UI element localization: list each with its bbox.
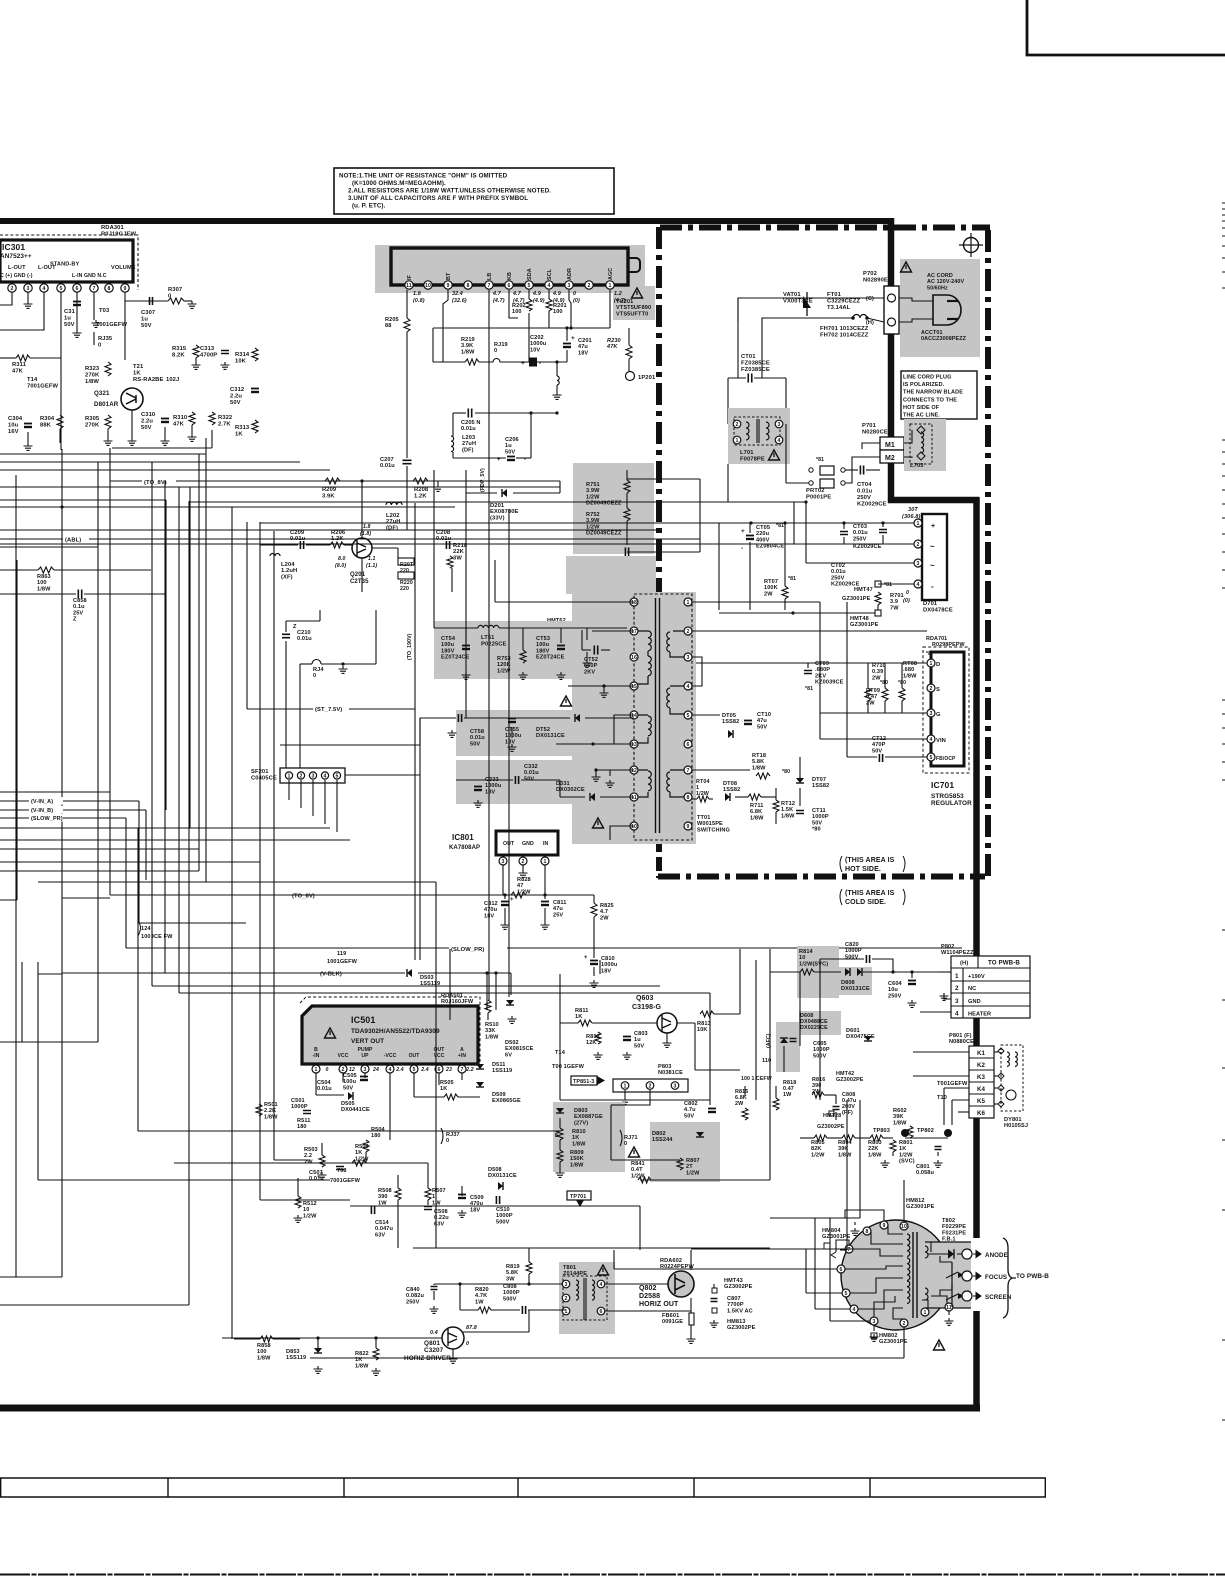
extra left verticals: [21, 962, 23, 1042]
svg-text:9: 9: [124, 286, 127, 292]
svg-text:P0001PE: P0001PE: [806, 495, 831, 501]
svg-text:S: S: [936, 687, 940, 693]
svg-text:C514: C514: [375, 1220, 390, 1226]
svg-text:R307: R307: [168, 287, 182, 293]
svg-text:EZ0T24CE: EZ0T24CE: [441, 655, 470, 661]
svg-text:-VCC: -VCC: [384, 1053, 397, 1059]
svg-text:8: 8: [687, 795, 690, 801]
svg-text:F0078PE: F0078PE: [740, 457, 765, 463]
svg-text:Z0144PE: Z0144PE: [563, 1271, 587, 1277]
svg-text:3.9K: 3.9K: [461, 343, 473, 349]
wires K connector: [913, 1051, 969, 1053]
wire pin5 down: [60, 292, 62, 450]
svg-text:50V: 50V: [141, 425, 152, 431]
svg-text:0.01u: 0.01u: [853, 530, 868, 536]
svg-text:0: 0: [446, 1138, 449, 1144]
flyback pins: [880, 1221, 888, 1229]
svg-text:(0.8): (0.8): [413, 298, 425, 304]
svg-text:SCL: SCL: [547, 268, 553, 280]
resistor R752 sym: [624, 508, 630, 521]
svg-text:50V: 50V: [64, 322, 75, 328]
svg-text:12: 12: [631, 768, 637, 774]
diode D808: [845, 968, 850, 976]
flyback focus pot: [946, 1262, 958, 1290]
svg-text:R230: R230: [607, 338, 622, 344]
gray patch AFC diodes: [776, 1022, 800, 1072]
svg-text:1/2W: 1/2W: [631, 1173, 645, 1179]
svg-text:(V-IN_A): (V-IN_A): [31, 799, 53, 805]
svg-text:P0225CE: P0225CE: [481, 642, 507, 648]
svg-text:C858: C858: [73, 598, 87, 604]
svg-text:C31: C31: [64, 309, 76, 315]
svg-text:1/8W: 1/8W: [85, 379, 99, 385]
svg-text:RDA602: RDA602: [660, 1258, 682, 1264]
svg-text:3: 3: [27, 286, 30, 292]
svg-text:50V: 50V: [141, 323, 152, 329]
svg-text:2: 2: [300, 773, 303, 779]
svg-text:1u: 1u: [634, 1037, 641, 1043]
hot-side chain border left lower: [656, 838, 662, 878]
svg-text:C201: C201: [578, 338, 592, 344]
svg-text:+IN: +IN: [458, 1053, 467, 1059]
svg-text:0.01u: 0.01u: [524, 770, 539, 776]
svg-text:16: 16: [631, 655, 637, 661]
svg-text:R841: R841: [631, 1161, 645, 1167]
svg-text:~: ~: [930, 542, 935, 551]
svg-text:4: 4: [917, 582, 920, 588]
center verticals: [419, 718, 421, 960]
svg-text:R511: R511: [297, 1118, 310, 1124]
svg-text:.680: .680: [903, 667, 914, 673]
svg-text:THE NARROW BLADE: THE NARROW BLADE: [903, 390, 963, 396]
svg-text:C209: C209: [290, 530, 305, 536]
gray patch D808: [830, 967, 872, 995]
svg-text:9: 9: [687, 824, 690, 830]
svg-text:8.0: 8.0: [338, 556, 346, 562]
svg-text:0.4T: 0.4T: [631, 1167, 643, 1173]
thick bottom boundary line: [0, 1405, 980, 1412]
svg-text:0: 0: [624, 1141, 627, 1147]
svg-text:9: 9: [447, 283, 450, 289]
svg-text:R863: R863: [37, 574, 51, 580]
svg-text:C206: C206: [505, 437, 519, 443]
svg-text:M2: M2: [885, 455, 895, 462]
svg-text:TDA9302H/AN5522/TDA9309: TDA9302H/AN5522/TDA9309: [351, 1028, 440, 1035]
svg-text:10: 10: [425, 283, 431, 289]
svg-text:88K: 88K: [40, 423, 52, 429]
svg-text:11: 11: [406, 283, 412, 289]
flyback core: [912, 1232, 914, 1318]
svg-text:3: 3: [930, 711, 933, 717]
svg-text:1: 1: [917, 521, 920, 527]
T701 pin14-13 left loop: [614, 715, 634, 744]
svg-text:4.7: 4.7: [512, 291, 522, 297]
svg-text:FH701 1013CEZZ: FH701 1013CEZZ: [820, 326, 869, 332]
svg-text:1: 1: [288, 773, 291, 779]
svg-text:R504: R504: [371, 1127, 386, 1133]
svg-text:C807: C807: [727, 1296, 741, 1302]
svg-text:RT07: RT07: [764, 579, 778, 585]
svg-text:C802: C802: [684, 1101, 698, 1107]
svg-text:4: 4: [43, 286, 46, 292]
svg-text:D511: D511: [492, 1062, 505, 1068]
svg-text:5.8K: 5.8K: [752, 759, 764, 765]
svg-text:FZ0385CE: FZ0385CE: [741, 367, 770, 373]
svg-text:7001GEFW: 7001GEFW: [27, 384, 59, 390]
svg-text:47K: 47K: [173, 422, 185, 428]
svg-text:NC: NC: [968, 986, 976, 992]
svg-text:470u: 470u: [484, 907, 498, 913]
svg-text:C3198-G: C3198-G: [632, 1004, 662, 1011]
svg-text:HEATER: HEATER: [968, 1012, 991, 1018]
svg-text:2: 2: [903, 1321, 906, 1327]
svg-text:87.8: 87.8: [466, 1325, 477, 1331]
svg-text:RDA501: RDA501: [441, 993, 463, 999]
svg-text:D803: D803: [574, 1108, 588, 1114]
svg-text:(u. P. ETC).: (u. P. ETC).: [352, 203, 386, 210]
transistor Q802: [668, 1271, 694, 1297]
svg-text:1: 1: [687, 600, 690, 606]
diode DT51 sym: [583, 624, 588, 632]
wires T801: [434, 1283, 563, 1285]
svg-text:(32.6): (32.6): [452, 298, 467, 304]
hot-side chain border top: [660, 225, 990, 231]
svg-text:1/8W: 1/8W: [461, 349, 475, 355]
IC701 dashed outline: [923, 647, 969, 773]
svg-text:47u: 47u: [578, 344, 588, 350]
warning triangle under LT51: [561, 696, 572, 706]
ground CT52: [583, 660, 592, 667]
svg-text:CT11: CT11: [812, 808, 826, 814]
svg-text:HM802: HM802: [879, 1333, 898, 1339]
tuner pins: [405, 281, 413, 289]
L703 coil: [921, 432, 924, 453]
svg-text:4.7K: 4.7K: [475, 1293, 487, 1299]
svg-text:1.2uH: 1.2uH: [281, 568, 297, 574]
svg-text:4: 4: [389, 1067, 392, 1073]
svg-text:18: 18: [631, 600, 637, 606]
left bundle horizontals upper: [112, 447, 212, 449]
line cord plug note box: [901, 371, 977, 419]
svg-text:*81: *81: [805, 686, 813, 692]
wire tuner pin7: [488, 290, 490, 560]
svg-text:6: 6: [840, 1267, 843, 1273]
connector P702: [884, 286, 899, 334]
wires R805 row: [800, 1137, 814, 1139]
svg-text:(ABL): (ABL): [65, 538, 81, 544]
svg-text:HOT SIDE OF: HOT SIDE OF: [903, 405, 940, 411]
svg-text:10: 10: [303, 1207, 309, 1213]
svg-text:CT09: CT09: [815, 661, 829, 667]
svg-text:TO PWB-B: TO PWB-B: [1016, 1273, 1049, 1280]
svg-text:TP851-3: TP851-3: [573, 1079, 594, 1085]
svg-text:50V: 50V: [872, 748, 882, 754]
svg-text:(8.0): (8.0): [335, 563, 346, 569]
gray patch D803: [553, 1102, 625, 1172]
flyback right coils: [925, 1246, 928, 1258]
svg-text:HMT47: HMT47: [854, 587, 873, 593]
svg-text:0.01u: 0.01u: [309, 1176, 324, 1182]
svg-text:4.7: 4.7: [492, 291, 502, 297]
transistor Q603: [657, 1013, 677, 1033]
svg-text:4.7u: 4.7u: [684, 1107, 696, 1113]
capacitor C205: [468, 409, 471, 418]
svg-text:50V: 50V: [230, 400, 241, 406]
svg-text:Q321: Q321: [94, 390, 110, 397]
svg-text:10u: 10u: [8, 423, 19, 429]
svg-text:C312: C312: [230, 387, 244, 393]
svg-text:1.2K: 1.2K: [414, 494, 427, 500]
svg-text:R602: R602: [893, 1108, 907, 1114]
terminal 1P201: [626, 372, 635, 381]
svg-text:R209: R209: [322, 487, 337, 493]
wire bridge pin2: [794, 543, 914, 545]
inductor L203: [451, 436, 454, 452]
hot-side chain border bottom: [658, 874, 985, 880]
svg-text:2T: 2T: [686, 1164, 693, 1170]
svg-text:~: ~: [930, 561, 935, 570]
svg-text:CT02: CT02: [831, 563, 845, 569]
wire pin2 down: [0, 292, 12, 305]
resistor R208 on TO_8V line: [413, 478, 428, 484]
svg-text:1SS119: 1SS119: [286, 1355, 306, 1361]
svg-text:D808: D808: [841, 980, 855, 986]
svg-text:P702: P702: [863, 271, 877, 277]
svg-text:+: +: [584, 955, 588, 961]
svg-text:(THIS AREA IS: (THIS AREA IS: [845, 857, 895, 864]
svg-text:DT07: DT07: [812, 777, 826, 783]
svg-text:5: 5: [413, 1067, 416, 1073]
wires Q603: [592, 1022, 657, 1024]
svg-text:5: 5: [930, 755, 933, 761]
svg-text:T10: T10: [937, 1095, 947, 1101]
svg-text:R825: R825: [600, 903, 614, 909]
wires R858: [234, 1338, 260, 1340]
wire bridge pin4 HMT47: [878, 583, 914, 585]
grounds R315 C313: [192, 362, 201, 369]
svg-text:0.01u: 0.01u: [317, 1086, 332, 1092]
svg-text:7W: 7W: [890, 605, 899, 611]
svg-text:+: +: [571, 335, 575, 342]
svg-text:0.1u: 0.1u: [73, 604, 85, 610]
svg-text:-: -: [741, 545, 743, 552]
svg-text:2: 2: [687, 629, 690, 635]
svg-text:180: 180: [371, 1133, 381, 1139]
IC701 pins: [927, 659, 935, 667]
svg-text:1/8W: 1/8W: [264, 1114, 278, 1120]
transistor Q321: [121, 388, 143, 410]
svg-text:180V: 180V: [441, 648, 455, 654]
svg-text:390: 390: [378, 1194, 388, 1200]
thick boundary right vertical of AC inlet area: [888, 218, 895, 503]
svg-text:L203: L203: [462, 435, 475, 441]
wire TO_190V vertical: [414, 628, 416, 960]
svg-text:TT01: TT01: [697, 815, 710, 821]
gray patch D802: [650, 1122, 720, 1182]
svg-text:12K: 12K: [586, 1040, 597, 1046]
svg-text:6.8K: 6.8K: [750, 809, 762, 815]
svg-text:IF: IF: [407, 274, 413, 280]
svg-text:(DF): (DF): [462, 447, 474, 453]
svg-text:1K: 1K: [572, 1135, 579, 1141]
flyback right side wires: [928, 1253, 948, 1255]
svg-text:50V: 50V: [524, 776, 534, 782]
svg-text:LB: LB: [487, 273, 493, 280]
svg-text:4: 4: [778, 438, 781, 444]
svg-text:GZ3001PE: GZ3001PE: [906, 1204, 935, 1210]
svg-text:7: 7: [488, 283, 491, 289]
svg-text:47: 47: [517, 883, 523, 889]
svg-text:DT52: DT52: [536, 727, 550, 733]
wire tuner pin6: [509, 290, 518, 318]
svg-text:2W: 2W: [866, 700, 875, 706]
svg-text:1/8W: 1/8W: [752, 765, 766, 771]
wire tuner pin9 BT: [443, 290, 448, 362]
svg-text:R810: R810: [572, 1129, 586, 1135]
transistor Q801: [442, 1327, 464, 1349]
svg-text:0: 0: [326, 1067, 329, 1073]
svg-text:T03: T03: [99, 308, 110, 314]
wires M1 M2: [904, 430, 912, 443]
svg-text:0091GE: 0091GE: [662, 1319, 683, 1325]
wire Q321 emitter: [131, 410, 133, 438]
svg-text:N0880CE: N0880CE: [949, 1039, 974, 1045]
svg-text:R304: R304: [40, 416, 55, 422]
svg-text:2.ALL RESISTORS ARE 1/18W WATT: 2.ALL RESISTORS ARE 1/18W WATT.UNLESS OT…: [348, 188, 551, 195]
T701 dashed outline: [634, 594, 692, 840]
svg-text:P802: P802: [941, 944, 954, 950]
T701 pin7 wire right: [692, 769, 750, 771]
svg-text:1: 1: [624, 1083, 627, 1089]
svg-text:C820: C820: [845, 942, 859, 948]
svg-text:18V: 18V: [485, 789, 495, 795]
svg-text:DY801: DY801: [1004, 1117, 1022, 1123]
T801 pins: [562, 1280, 570, 1288]
svg-text:1/8W: 1/8W: [868, 1152, 882, 1158]
svg-text:0.082u: 0.082u: [406, 1293, 424, 1299]
hot-side chain border right: [985, 230, 991, 876]
connector P801 K boxes: [969, 1046, 994, 1118]
svg-text:IN: IN: [543, 841, 549, 847]
svg-text:(1.1): (1.1): [366, 563, 377, 569]
T801 gray box: [559, 1262, 615, 1334]
wires C333 row: [456, 779, 513, 781]
svg-text:1: 1: [609, 283, 612, 289]
svg-text:10K: 10K: [235, 359, 247, 365]
svg-text:100: 100: [512, 309, 522, 315]
svg-text:D802: D802: [652, 1131, 666, 1137]
svg-text:3.9: 3.9: [890, 599, 898, 605]
svg-text:C811: C811: [553, 900, 566, 906]
svg-text:-IN: -IN: [313, 1053, 320, 1059]
svg-text:C332: C332: [524, 764, 538, 770]
svg-text:TP803: TP803: [873, 1128, 890, 1134]
svg-text:(XF): (XF): [281, 574, 293, 580]
svg-text:2W: 2W: [764, 591, 773, 597]
svg-text:GZ3001PE: GZ3001PE: [850, 622, 879, 628]
svg-text:8: 8: [555, 1133, 558, 1139]
svg-text:4: 4: [324, 773, 327, 779]
svg-text:25V: 25V: [73, 610, 83, 616]
labels V-IN: [29, 797, 63, 805]
svg-text:1K: 1K: [899, 1146, 906, 1152]
svg-text:D331: D331: [556, 781, 570, 787]
svg-text:(THIS AREA IS: (THIS AREA IS: [845, 890, 895, 897]
center horizontals lower: [695, 1069, 740, 1071]
svg-text:P801 (F): P801 (F): [949, 1033, 972, 1039]
left bundle lower horizontals: [0, 791, 110, 793]
junction dot x62: [60, 505, 63, 508]
svg-text:TO PWB-B: TO PWB-B: [988, 960, 1020, 967]
svg-text:2.2: 2.2: [304, 1153, 312, 1159]
IC701 box: [931, 652, 964, 766]
label ABL: [63, 535, 89, 543]
svg-text:Q802: Q802: [639, 1285, 657, 1292]
T701 right coils: [667, 631, 684, 657]
svg-text:2W: 2W: [735, 1101, 744, 1107]
IC501 dashed outline: [300, 997, 480, 1068]
T701 pin10 left elbow: [610, 826, 634, 840]
svg-text:100: 100: [37, 580, 47, 586]
svg-text:0.01u: 0.01u: [380, 463, 395, 469]
svg-text:50V: 50V: [684, 1113, 694, 1119]
svg-text:VOLUME: VOLUME: [111, 265, 136, 271]
svg-text:Q603: Q603: [636, 995, 654, 1002]
svg-text:18V: 18V: [505, 739, 515, 745]
svg-text:R305: R305: [85, 416, 100, 422]
diode D201: [434, 480, 560, 482]
svg-text:2: 2: [917, 542, 920, 548]
svg-text:*80: *80: [812, 827, 821, 833]
warning triangle under transformer: [593, 818, 604, 828]
L701 coils: [746, 422, 749, 440]
svg-text:ADR: ADR: [567, 268, 573, 280]
svg-text:IS POLARIZED.: IS POLARIZED.: [903, 382, 945, 388]
svg-text:D2588: D2588: [639, 1293, 660, 1300]
svg-text:7: 7: [848, 1247, 851, 1253]
grounds LT51 row: [462, 672, 471, 679]
svg-text:HM804: HM804: [822, 1228, 841, 1234]
svg-text:100: 100: [257, 1349, 267, 1355]
IC801 box: [496, 831, 558, 855]
svg-text:R858: R858: [257, 1343, 271, 1349]
svg-text:82K: 82K: [811, 1146, 822, 1152]
fuse symbol: [853, 315, 867, 319]
svg-text:18V: 18V: [470, 1207, 480, 1213]
wire bridge pin1: [719, 522, 914, 524]
svg-text:(AFC): (AFC): [766, 1033, 772, 1048]
T701 pin12 left wire: [596, 769, 634, 771]
tuner net bottom row: [433, 361, 465, 363]
R751 loop wires: [627, 478, 700, 480]
svg-text:1/2W: 1/2W: [586, 494, 600, 500]
T801 dashed box: [563, 1276, 607, 1320]
svg-text:220u: 220u: [756, 531, 770, 537]
svg-text:GZ3001PE: GZ3001PE: [879, 1339, 908, 1345]
svg-text:L204: L204: [281, 562, 295, 568]
svg-text:R314: R314: [235, 352, 250, 358]
svg-text:CT53: CT53: [536, 636, 550, 642]
svg-text:63V: 63V: [375, 1232, 385, 1238]
svg-text:30T: 30T: [908, 507, 918, 513]
transistor Q201: [352, 538, 372, 558]
thick top boundary line: [0, 218, 894, 224]
svg-text:(TO_190V): (TO_190V): [407, 633, 413, 660]
warning triangle AC: [901, 262, 912, 272]
svg-text:VERT OUT: VERT OUT: [351, 1038, 384, 1045]
svg-text:HMT48: HMT48: [850, 616, 869, 622]
svg-text:D: D: [936, 662, 940, 668]
